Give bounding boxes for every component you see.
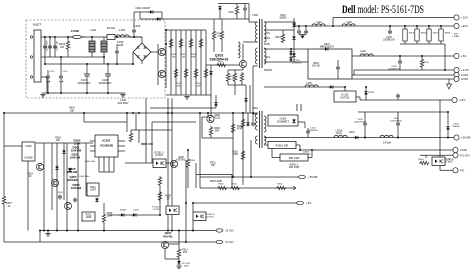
wire comb vertical 6 [195, 30, 197, 95]
svg-text:R331: R331 [277, 184, 283, 186]
opto PC301-1 [432, 157, 445, 166]
winding aux [238, 42, 240, 58]
resistor R329 [102, 213, 105, 223]
wire c205 drop [389, 26, 391, 30]
svg-text:D3031N4002: D3031N4002 [452, 124, 460, 129]
junction [103, 56, 105, 58]
wire bridge left [132, 52, 134, 64]
wire gndbus drop [122, 92, 124, 95]
wire ic304 right [298, 121, 305, 123]
wire ctrl v52 [51, 143, 53, 210]
svg-text:L204: L204 [360, 50, 366, 53]
diode D301 [353, 136, 359, 140]
inductor L301 [334, 135, 347, 137]
wire ic201 in [344, 87, 346, 91]
resistor R120 [220, 30, 223, 40]
svg-text:R340: R340 [418, 159, 424, 161]
svg-text:PG: PG [460, 169, 465, 173]
wire ctrl v64 [63, 143, 65, 200]
junction [107, 63, 109, 65]
capacitor C301 pair [297, 104, 301, 111]
wire ic301 pin1 [90, 140, 95, 142]
wire c203 bot [337, 71, 339, 80]
junction [167, 230, 169, 232]
capacitor C206 [398, 60, 402, 65]
resistor R114 [204, 68, 207, 78]
svg-text:C305 100n: C305 100n [85, 161, 96, 163]
wire filter vertical r2b [67, 50, 69, 57]
svg-text:Q306KST5401: Q306KST5401 [176, 157, 186, 162]
wire c207 bot [397, 99, 399, 101]
svg-text:Q307KIA431: Q307KIA431 [163, 231, 173, 238]
wire 12v branch up [332, 18, 334, 27]
wire sec tap stub b [264, 43, 270, 45]
junction [60, 92, 62, 94]
wire x136 drop [135, 113, 137, 130]
wire opto2 left [125, 162, 153, 164]
svg-text:(NOLOAD): (NOLOAD) [453, 34, 460, 39]
wire d204 chain [290, 49, 292, 62]
junction [187, 149, 189, 151]
resistor R122 [226, 72, 229, 82]
wire r329 top [103, 203, 105, 213]
AC inlet dashed enclosure [26, 20, 165, 98]
wire bridge bottom [141, 61, 143, 64]
wire r120 bot [221, 40, 223, 52]
svg-text:C106: C106 [134, 24, 141, 28]
transformer T301 secondary winding 2 [264, 136, 266, 144]
wire line L from inlet [41, 36, 142, 38]
svg-text:L301A10uH: L301A10uH [336, 130, 343, 136]
wire x233 drop [232, 113, 234, 177]
junction [56, 230, 58, 232]
svg-text:C110: C110 [228, 11, 234, 14]
resistor R206 [415, 29, 419, 41]
resistor R207 [427, 29, 431, 41]
wire x211 drop [210, 95, 212, 116]
wire c303 bot [364, 127, 366, 138]
resistor R209 [420, 58, 423, 68]
junction [185, 241, 187, 243]
svg-text:R320: R320 [190, 160, 196, 162]
transistor Q307 [161, 241, 168, 248]
resistor R318 [241, 150, 244, 160]
svg-text:+12V: +12V [461, 16, 468, 20]
svg-text:R3252R: R3252R [165, 195, 171, 201]
wire ctrl v78 [77, 143, 79, 231]
wire choke1 top [91, 37, 93, 41]
wire to bridge top [129, 36, 142, 38]
svg-text:C3042200uF/10V: C3042200uF/10V [390, 118, 402, 123]
wire pson rail [420, 154, 453, 156]
wire d105 chain [245, 85, 247, 113]
svg-text:R121: R121 [218, 62, 224, 64]
wire q103 gate [206, 64, 240, 66]
junction [252, 112, 254, 114]
diode D203b [292, 53, 296, 58]
junction [444, 69, 446, 71]
svg-text:D201SB560: D201SB560 [280, 15, 288, 20]
wire c202 drop [305, 26, 307, 30]
resistor R119 [212, 30, 215, 40]
wire ic303 feed [4, 145, 22, 147]
wire bank drop 3 [428, 26, 430, 29]
wire comb vertical 2 [175, 30, 177, 95]
wire comb vertical 7 [200, 30, 202, 95]
wire y122 bus b [152, 121, 196, 123]
wire ctrl v70 [66, 143, 68, 231]
wire filter vertical r1 [54, 37, 56, 57]
wire src bus bottom [228, 84, 246, 86]
junction [132, 112, 134, 114]
wire r320 top [187, 150, 189, 158]
svg-text:R31015K: R31015K [69, 107, 75, 113]
svg-text:+5VSB: +5VSB [461, 136, 470, 140]
transformer T102 secondary winding 2 [264, 48, 266, 64]
diode D308 [131, 213, 137, 217]
wire r201 top [282, 30, 284, 33]
capacitor C104 [115, 50, 119, 55]
wire earth drop [46, 77, 48, 93]
wire snub301 a [242, 113, 244, 118]
svg-text:+12V: +12V [461, 24, 468, 28]
junction [103, 230, 105, 232]
wire ycap1 drop [47, 80, 49, 94]
wire left drop x4 [3, 113, 5, 195]
wire q308 base [202, 116, 208, 118]
svg-text:R3071K: R3071K [6, 202, 12, 208]
wire q307 em drop [164, 249, 166, 260]
wire snub301 b [247, 113, 249, 122]
diode D303b [62, 150, 66, 155]
diode D303 [446, 126, 450, 131]
wire t102 pri mid stub [243, 41, 258, 43]
wire 5vsb sense [200, 176, 299, 178]
svg-text:C2052200M/10V: C2052200M/10V [383, 37, 395, 42]
wire sec tap 12v [264, 21, 294, 23]
wire c104 top [116, 44, 118, 50]
wire com rail join [353, 70, 355, 75]
wire bank bot 4 [440, 41, 442, 44]
wire com5vsb rail [300, 149, 453, 151]
rail +12V [295, 25, 454, 27]
wire ic301 pin bottom c [108, 157, 110, 172]
wire comb bottom bus [166, 94, 211, 96]
wire c20x join [299, 34, 306, 36]
wire y57 drop [44, 57, 46, 64]
junction [138, 112, 140, 114]
diode D101 [148, 10, 154, 14]
diode D305 [68, 168, 72, 173]
capacitor C202 [304, 30, 308, 35]
wire r301-1 corner [311, 150, 313, 158]
junction [298, 25, 300, 27]
terminal +5VSB [299, 175, 318, 179]
svg-text:D203MBR20100CT: D203MBR20100CT [320, 44, 335, 49]
wire bank bot 2 [416, 41, 418, 44]
wire snub r top [236, 4, 238, 6]
ground inlet [40, 95, 45, 98]
junction [167, 112, 169, 114]
terminal +5V sense [297, 201, 312, 205]
svg-text:L103: L103 [119, 28, 125, 32]
junction [43, 230, 45, 232]
fuse F101 [68, 35, 86, 38]
wire neutral from inlet [41, 56, 70, 58]
wire r301 right [296, 144, 300, 146]
resistor R121 gate [216, 63, 226, 66]
opto PC302 [166, 206, 179, 215]
wire pg rail [440, 169, 453, 171]
wire src bus top [228, 69, 243, 71]
thermistor RT101 [107, 35, 115, 40]
diode D309 [95, 198, 99, 203]
wire d303 drop [447, 112, 449, 125]
wire ground bus [42, 92, 125, 94]
terminal 5V sense [216, 240, 234, 244]
output connector +5V [454, 53, 467, 58]
resistor R124 [240, 72, 243, 82]
mag-amp block [308, 49, 352, 79]
svg-text:R306 15K: R306 15K [141, 142, 153, 146]
wire bridge top feed [141, 37, 143, 43]
wire src r3 bot [241, 82, 243, 85]
wire y108 [150, 107, 216, 109]
inductor L201 [312, 24, 325, 26]
svg-text:+5V: +5V [461, 54, 466, 58]
resistor R101 [66, 40, 69, 50]
wire ctrl v57 [56, 143, 58, 231]
wire t102 pri top stub [249, 21, 258, 23]
junction [199, 112, 201, 114]
wire sec rect bus [293, 19, 295, 62]
wire r323 top [196, 174, 232, 176]
svg-text:UC3843B: UC3843B [100, 144, 114, 148]
transistor Q102 [158, 70, 165, 77]
wire -12 corner [359, 97, 361, 100]
junction [165, 29, 167, 31]
svg-text:+5V: +5V [306, 201, 311, 205]
resistor R105 [179, 38, 182, 48]
junction [159, 214, 161, 216]
choke L102 [89, 41, 95, 52]
svg-text:PC301-2LTV817: PC301-2LTV817 [152, 207, 161, 212]
wire comb vertical 4 [185, 30, 187, 95]
svg-text:R206: R206 [421, 33, 427, 35]
junction [404, 25, 406, 27]
wire comb vertical 5 [190, 30, 192, 95]
output connector +5VSB [454, 135, 471, 140]
wire r314 bot [178, 258, 180, 261]
junction [365, 86, 367, 88]
wire ic301 pin bottom b [103, 157, 105, 172]
wire bank bot 3 [428, 41, 430, 44]
wire src r1 top [227, 70, 229, 72]
junction [332, 25, 334, 27]
capacitor C304 [396, 122, 400, 127]
junction [165, 43, 167, 45]
wire q103 source [242, 68, 244, 71]
svg-text:R208: R208 [445, 33, 451, 35]
wire aux top2 [140, 18, 220, 20]
transistor Q308 [207, 115, 214, 122]
resistor R123 [233, 72, 236, 82]
junction [49, 36, 51, 38]
wire x139 drop [138, 130, 140, 143]
wire d201 up [293, 18, 295, 19]
wire q307 loop [165, 258, 179, 260]
wire aux top1 [134, 11, 162, 13]
svg-text:C309: C309 [57, 192, 63, 194]
svg-text:C102 .1M: C102 .1M [57, 41, 59, 51]
svg-text:PC303-2LTV817: PC303-2LTV817 [206, 214, 215, 219]
inductor L301B [380, 135, 393, 137]
junction [66, 230, 68, 232]
resistor R340 [419, 161, 429, 164]
diode D302 [55, 166, 59, 171]
wire x200 drop [199, 113, 201, 188]
zener ZD301 [177, 260, 181, 265]
svg-text:IC303: IC303 [25, 145, 32, 148]
svg-text:PS-ON: PS-ON [460, 154, 470, 158]
wire filter bus vertical c1 [44, 37, 46, 57]
junction [364, 137, 366, 139]
junction [447, 111, 449, 113]
wire ycap1 top [47, 70, 49, 75]
junction [207, 112, 209, 114]
wire ic301 pin5 bottom [98, 157, 100, 172]
wire sec tap 12v2 [264, 29, 294, 31]
wire c203 top [337, 60, 339, 66]
wire src r2 bot [234, 82, 236, 85]
wire ic301 pin bottom d [113, 157, 115, 172]
wire choke1 bot [91, 52, 93, 57]
junction [305, 25, 307, 27]
wire ycap2 drop [60, 80, 62, 94]
svg-text:2Ps: 2Ps [266, 57, 271, 59]
wire ic301 pin6 [118, 150, 125, 152]
svg-text:R312100R: R312100R [90, 187, 96, 192]
wire sec tap 3v [264, 61, 308, 63]
junction [344, 86, 346, 88]
junction [178, 230, 180, 232]
wire sec tap stub a [264, 37, 270, 39]
wire y130 bus [131, 129, 172, 131]
wire pg sense [193, 202, 297, 204]
junction [67, 36, 69, 38]
junction [39, 230, 41, 232]
junction [232, 176, 234, 178]
wire comb vertical 3 [180, 30, 182, 95]
ground sense [45, 234, 50, 237]
svg-text:L102: L102 [90, 28, 96, 32]
wire r309 bot [210, 136, 212, 138]
junction [83, 112, 85, 114]
junction [440, 25, 442, 27]
transformer T301 secondary winding [264, 116, 266, 132]
wire comb x166 up [165, 30, 167, 44]
wire comb vertical 1 [170, 30, 172, 95]
wire primary return b [249, 85, 251, 113]
ground secondary a [300, 36, 304, 39]
junction [132, 63, 134, 65]
junction [54, 36, 56, 38]
wire bank to com [444, 44, 446, 70]
wire bank bus [400, 43, 445, 45]
wire pson line [200, 187, 296, 189]
wire com rail 3 [352, 78, 454, 80]
wire bank drop 1 [404, 26, 406, 29]
svg-text:R3001-125R 1/4W: R3001-125R 1/4W [289, 165, 300, 170]
arrow Y-cap CY2 [59, 81, 63, 82]
diode D104 [209, 71, 213, 76]
wire 5vsb top bus [358, 111, 448, 113]
svg-text:R30510K: R30510K [55, 138, 61, 143]
junction [107, 92, 109, 94]
wire c303 drop [364, 112, 366, 122]
wire q307 col [178, 231, 180, 249]
svg-text:C108220M/200V: C108220M/200V [99, 79, 112, 85]
svg-text:IC 201KA7912: IC 201KA7912 [341, 94, 351, 100]
output connector COM A [454, 72, 469, 77]
zener ZD201 [364, 91, 368, 96]
wire aux drop x134 [133, 12, 135, 28]
output connector +3.3V [454, 67, 469, 72]
output connector COM B [454, 76, 469, 81]
wire dc minus bus [45, 63, 133, 65]
output connector PS-ON [453, 153, 470, 158]
wire sec tap -12v [264, 86, 345, 88]
wire zd201 top [365, 87, 367, 91]
wire comb vertical 8 [205, 30, 207, 95]
svg-text:R323 100R: R323 100R [210, 180, 222, 183]
wire r329 drop [103, 223, 105, 231]
svg-text:R3001 25R: R3001 25R [276, 145, 289, 148]
junction [311, 149, 313, 151]
connector J101 pin 1 [30, 36, 32, 38]
svg-text:C113: C113 [50, 71, 56, 73]
resistor R208 [439, 29, 443, 41]
diode D204 [289, 51, 293, 56]
transistor Q302 [36, 163, 43, 170]
junction [299, 149, 301, 151]
wire ctrl v44 [43, 143, 45, 231]
wire +5 rail [352, 55, 454, 57]
wire zd bus y215 [108, 214, 160, 216]
diode D202 [292, 36, 296, 41]
svg-text:+3.3V: +3.3V [461, 68, 469, 72]
inductor L103 [116, 35, 129, 37]
wire ic201 out [356, 96, 360, 98]
wire gnd stub [47, 231, 49, 234]
wire x146 drop [145, 98, 147, 163]
wire aux x162 drop [161, 12, 163, 19]
junction [47, 92, 49, 94]
inductor L205 [305, 85, 318, 87]
capacitor C207 [396, 94, 400, 99]
svg-text:ZD302: ZD302 [120, 210, 127, 212]
svg-text:COM: COM [461, 77, 469, 81]
wire y122 bus [84, 121, 127, 123]
svg-text:D101 1N4007: D101 1N4007 [136, 7, 151, 10]
wire filter bus vertical c2 [49, 37, 51, 57]
wire cs drop [234, 85, 236, 95]
wire sense join [39, 231, 41, 243]
capacitor C103 [53, 45, 57, 50]
wire com rail 2 [352, 74, 454, 76]
svg-text:C105.22M: C105.22M [117, 40, 124, 47]
wire choke2 top [103, 37, 105, 41]
